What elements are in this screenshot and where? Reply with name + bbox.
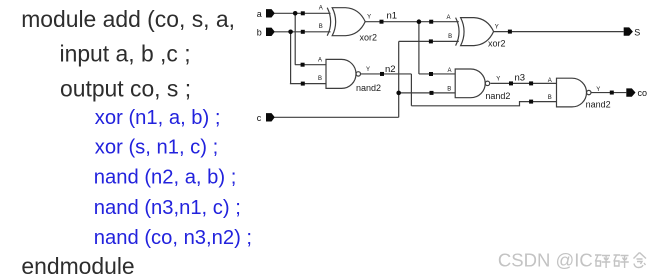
svg-text:A: A [447,15,451,21]
svg-text:Y: Y [367,15,371,21]
svg-text:nand2: nand2 [356,83,381,93]
svg-text:c: c [257,113,262,123]
svg-text:B: B [318,76,322,82]
svg-text:xor2: xor2 [488,39,506,49]
svg-text:nand2: nand2 [586,100,611,110]
svg-text:Y: Y [596,87,600,93]
svg-text:n3: n3 [515,73,526,84]
svg-text:xor2: xor2 [360,32,378,42]
svg-text:A: A [319,6,323,12]
svg-text:input a, b ,c ;: input a, b ,c ; [60,41,191,67]
svg-text:S: S [634,27,640,37]
svg-text:output co, s ;: output co, s ; [60,75,191,101]
svg-text:A: A [318,57,322,63]
svg-text:endmodule: endmodule [21,253,134,279]
svg-text:CSDN @IC: CSDN @IC [498,250,593,271]
svg-text:n1: n1 [387,11,398,22]
svg-text:B: B [447,86,451,92]
svg-text:nand (n3,n1, c) ;: nand (n3,n1, c) ; [94,197,241,219]
svg-text:B: B [548,95,552,101]
svg-text:B: B [319,24,323,30]
svg-text:Y: Y [366,67,370,73]
svg-text:b: b [257,27,262,37]
svg-text:Y: Y [495,25,499,31]
svg-text:nand (co, n3,n2) ;: nand (co, n3,n2) ; [94,227,252,249]
svg-text:nand2: nand2 [485,91,510,101]
svg-text:Y: Y [496,77,500,83]
svg-text:xor (n1, a, b) ;: xor (n1, a, b) ; [95,107,221,129]
svg-text:B: B [448,34,452,40]
svg-text:xor (s, n1, c) ;: xor (s, n1, c) ; [95,137,218,159]
svg-text:n2: n2 [385,64,396,75]
svg-text:module add (co, s, a,: module add (co, s, a, [21,6,235,32]
svg-text:a: a [257,9,262,19]
svg-text:A: A [448,68,452,74]
svg-text:co: co [638,88,648,98]
svg-text:nand (n2, a, b) ;: nand (n2, a, b) ; [94,166,237,188]
svg-text:A: A [548,78,552,84]
